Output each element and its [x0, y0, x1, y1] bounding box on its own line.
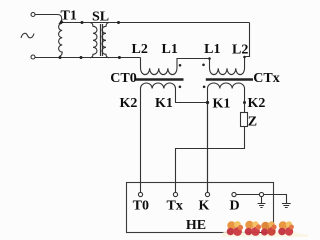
- SL core line left: [100, 24, 102, 56]
- transformer SL left coil: [90, 23, 97, 58]
- watermark (site logo blobs): [222, 221, 308, 237]
- resistor Z body: [241, 113, 248, 127]
- AC tilde symbol: [21, 33, 34, 38]
- terminal D: [232, 192, 236, 196]
- svg-text:L1: L1: [162, 42, 178, 57]
- terminal Tx: [173, 192, 177, 196]
- svg-text:Z: Z: [248, 114, 257, 129]
- wire top terminal to T1 tap: [35, 15, 62, 21]
- transformer T1 coil: [59, 23, 63, 56]
- wire Z bottom to Tx terminal: [176, 127, 245, 193]
- wire ground terminal to external earth: [264, 195, 287, 204]
- polarity dot SL primary bottom: [80, 56, 83, 59]
- junction dot T1 bottom: [59, 56, 62, 59]
- CTx core: [206, 78, 253, 81]
- polarity dot SL secondary bottom: [118, 56, 121, 59]
- svg-text:CTx: CTx: [253, 71, 279, 86]
- instrument box HE: [127, 183, 274, 233]
- SL core line right: [102, 24, 104, 56]
- svg-text:K: K: [199, 199, 210, 214]
- CTx primary winding L1-L2: [210, 57, 245, 75]
- svg-text:L2: L2: [232, 43, 248, 58]
- polarity dot CT0 L1: [179, 64, 182, 67]
- svg-text:L2: L2: [132, 42, 148, 57]
- wire bottom bus to CT0: [35, 57, 141, 59]
- polarity dot CTx K1: [203, 86, 206, 89]
- terminal dot K2 on Z wire: [243, 101, 246, 104]
- svg-text:CT0: CT0: [110, 71, 136, 86]
- corner dot CTx L1 top: [208, 57, 211, 60]
- svg-text:D: D: [230, 199, 240, 214]
- svg-text:T1: T1: [61, 9, 77, 24]
- transformer SL right coil: [102, 23, 109, 58]
- AC source terminal top: [31, 13, 35, 17]
- ground symbol inside box: [258, 197, 266, 208]
- svg-text:L1: L1: [204, 42, 220, 57]
- CT0 core: [136, 78, 184, 81]
- polarity dot CTx L1: [202, 64, 205, 67]
- svg-text:K1: K1: [155, 96, 173, 111]
- svg-text:K2: K2: [248, 96, 266, 111]
- terminal E (ground terminal): [259, 192, 263, 196]
- terminal T0: [138, 192, 142, 196]
- CT0 primary winding L2-L1: [141, 58, 210, 75]
- wire top bus T1 to right corner: [62, 22, 249, 24]
- AC source terminal bottom: [31, 55, 35, 59]
- polarity dot SL primary top: [81, 21, 84, 24]
- svg-text:SL: SL: [92, 9, 109, 24]
- T1 tap arrow: [58, 20, 64, 25]
- svg-text:HE: HE: [186, 218, 206, 233]
- svg-text:K2: K2: [120, 96, 138, 111]
- svg-text:T0: T0: [133, 199, 149, 214]
- terminal K: [205, 192, 209, 196]
- junction dot K node: [206, 101, 209, 104]
- polarity dot SL secondary top: [117, 21, 120, 24]
- svg-text:K1: K1: [213, 97, 231, 112]
- polarity dot CT0 K1: [179, 86, 182, 89]
- wire D to ground terminal: [236, 194, 259, 196]
- wire K junction down to K terminal: [207, 103, 209, 193]
- CT0 secondary winding K2-K1: [141, 83, 208, 193]
- wire top-right corner down to CTx: [245, 23, 250, 57]
- corner dot CTx L2 top: [243, 56, 246, 59]
- ground symbol external: [282, 204, 291, 208]
- svg-text:Tx: Tx: [167, 199, 183, 214]
- CTx secondary winding K1-K2: [208, 83, 245, 192]
